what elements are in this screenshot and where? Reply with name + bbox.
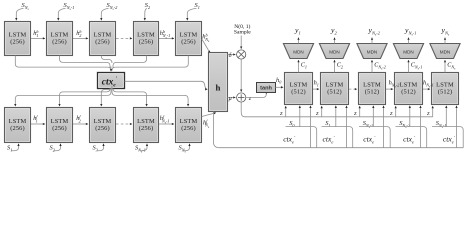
svg-text:z: z [315,110,319,117]
LSTM(256) forward encoder cell f2 [47,108,73,143]
wire: sample arrow down into multiply node [240,35,242,48]
wire: y output arrow from MDN m2 [334,38,336,44]
svg-text:Sample: Sample [234,30,251,36]
wire: ctx to forward cell f1 top [15,89,111,107]
svg-text:hb2: hb2 [76,29,81,38]
wire: S input hook into bottom of cell f4 [139,144,147,151]
LSTM(256) backward encoder cell b2 [47,22,73,56]
LSTM(256) forward encoder cell f4 [134,108,159,143]
wire: z input into decoder cell d1 [285,106,287,117]
wire: S underline from bottom bus into decoder cell d4 [396,127,427,148]
wire: z input into decoder cell d2 [321,106,323,117]
svg-text:LSTM: LSTM [290,82,308,89]
svg-text:LSTM: LSTM [94,118,112,125]
svg-text:(512): (512) [327,89,342,96]
wire: S input hook into top of cell b4 [145,8,147,20]
wire: z input into decoder cell d3 [359,106,361,117]
svg-text:LSTM: LSTM [180,32,198,39]
svg-text:LSTM: LSTM [137,32,155,39]
svg-text:(256): (256) [139,39,154,46]
wire: dashed arrow between forward cells f3 and f4 [116,123,132,125]
svg-text:MDN: MDN [367,50,377,55]
wire: h to sigma [228,54,236,56]
wire: z into tanh [246,94,266,98]
wire: tanh output h0 into first decoder cell [276,86,284,88]
LSTM(256) backward encoder cell b4 [134,22,159,56]
LSTM(256) backward encoder cell b3 [90,22,116,56]
svg-text:δ: δ [229,52,232,59]
svg-text:z: z [389,110,393,117]
svg-text:LSTM: LSTM [51,32,69,39]
wire: S riser arrow into decoder cell d2 [335,106,337,127]
svg-text:(256): (256) [52,125,67,132]
wire: z input into decoder cell d5 [432,106,434,117]
wire: C output from decoder cell d1 into MDN [298,60,300,72]
LSTM(256) forward encoder cell f5 [176,108,202,143]
wire: C output from decoder cell d3 into MDN [371,60,373,72]
wire: arrow h between encoder cells b1 and b2 [31,37,45,39]
wire: backward cell b2 state to ctx bus [60,56,111,69]
wire: arrow h between encoder cells b2 and b3 [73,37,88,39]
wire: arrow h between decoder cells d1 and d2 [313,88,319,90]
wire: arrow h between encoder cells b4 and b5 [159,37,174,39]
svg-text:LSTM: LSTM [51,118,69,125]
LSTM(256) backward encoder cell b1 [5,22,31,56]
wire: S input hook into top of cell b5 [187,8,196,20]
wire: z input into decoder cell d4 [395,106,397,117]
svg-text:MDN: MDN [293,50,303,55]
wire: arrow h between forward cells f2 and f3 [73,123,88,125]
wire: ctx input riser into decoder cell d5 [456,106,458,148]
svg-text:tanh: tanh [260,86,272,92]
wire: h to mu [228,97,236,99]
svg-text:(512): (512) [438,89,453,96]
wire: S input hook into top of cell b3 [101,8,108,20]
svg-text:LSTM: LSTM [180,118,198,125]
wire: S input hook into top of cell b2 [58,8,65,20]
wire: S underline from bottom bus into decoder cell d3 [359,127,390,148]
svg-text:(256): (256) [95,125,110,132]
wire: y output arrow from MDN m3 [371,38,373,44]
multiply node (sigma * sample) [237,50,246,59]
svg-text:LSTM: LSTM [9,32,27,39]
wire: ctx input riser into decoder cell d1 [310,106,312,148]
wire: context bus from below h to decoder bottom [213,112,463,148]
wire: y output arrow from MDN m4 [408,38,410,44]
svg-text:(512): (512) [291,89,306,96]
svg-text:(512): (512) [365,89,380,96]
wire: y output arrow from MDN m5 [444,38,446,44]
wire: backward cell b3 state into ctx [101,56,112,64]
svg-text:hb1: hb1 [33,29,38,38]
svg-text:(256): (256) [95,39,110,46]
svg-text:μ: μ [229,95,232,102]
wire: arrow h between forward cells f4 and f5 [159,123,174,125]
wire: dashed arrow between encoder cells b3 and b4 [116,37,132,39]
svg-text:LSTM: LSTM [400,82,418,89]
svg-text:LSTM: LSTM [9,118,27,125]
wire: S riser arrow into decoder cell d5 [445,106,447,127]
LSTM(512) decoder cell d4 [395,73,423,105]
svg-text:(256): (256) [10,39,25,46]
svg-text:h: h [216,83,221,93]
wire: arrow h between decoder cells d4 and d5 [423,88,430,90]
LSTM(512) decoder cell d3 [359,73,386,105]
MDN mixture density network head m3 [357,44,387,59]
MDN mixture density network head m1 [283,44,313,59]
svg-text:LSTM: LSTM [436,82,454,89]
plus node (mu + sigma*sample) [237,93,246,102]
svg-text:(256): (256) [139,125,154,132]
svg-text:(256): (256) [52,39,67,46]
wire: ctx to forward cell f2 top [60,88,111,106]
svg-text:LSTM: LSTM [326,82,344,89]
LSTM(512) decoder cell d1 [285,73,313,105]
wire: z bus from plus node along decoder bottoms [241,102,433,117]
MDN mixture density network head m2 [319,44,349,59]
LSTM(512) decoder cell d5 [432,73,459,105]
svg-text:MDN: MDN [403,50,413,55]
wire: ctx to forward cell f3 top [101,86,112,106]
h latent box [209,53,228,112]
LSTM(256) forward encoder cell f3 [90,108,116,143]
wire: arrow h between decoder cells d3 and d4 [386,88,393,90]
ctx_e context box [98,73,125,89]
wire: S input hook into bottom of cell f2 [54,144,61,151]
wire: S underline from bottom bus into decoder cell d1 [286,127,317,148]
svg-text:z: z [426,110,430,117]
wire: S underline from bottom bus into decoder cell d5 [432,127,463,148]
svg-text:LSTM: LSTM [94,32,112,39]
wire: dashed arrow between decoder cells d2 and d3 [349,88,357,90]
wire: ctx output into h left side [125,81,208,89]
wire: backward cell b1 state to ctx bus [15,56,111,71]
wire: S riser arrow into decoder cell d1 [299,106,301,127]
svg-text:(256): (256) [181,39,196,46]
LSTM(256) forward encoder cell f1 [5,108,31,143]
wire: arrow h between forward cells f1 and f2 [31,123,45,125]
svg-text:(512): (512) [401,89,416,96]
wire: S input hook into top of cell b1 [16,8,23,20]
svg-text:LSTM: LSTM [363,82,381,89]
svg-text:LSTM: LSTM [137,118,155,125]
LSTM(512) decoder cell d2 [321,73,349,105]
wire: ctx to forward cell f5 top [112,89,188,107]
wire: C output from decoder cell d4 into MDN [408,60,410,72]
svg-text:(256): (256) [181,125,196,132]
wire: merged arrow into ctx top [110,67,112,72]
wire: S riser arrow into decoder cell d4 [409,106,411,127]
wire: multiply node down to plus node [240,59,242,92]
wire: y output arrow from MDN m1 [298,38,300,44]
LSTM(256) backward encoder cell b5 [176,22,202,56]
wire: ctx input riser into decoder cell d3 [383,106,385,148]
wire: diagonal arrow from last forward cell up into h bottom [202,113,216,117]
svg-text:MDN: MDN [329,50,339,55]
wire: C output from decoder cell d2 into MDN [334,60,336,72]
wire: ctx input riser into decoder cell d2 [346,106,348,148]
wire: backward cell b4 state to ctx bus [113,56,147,69]
wire: ctx input riser into decoder cell d4 [420,106,422,148]
svg-text:z: z [248,95,252,102]
wire: diagonal arrow from last backward cell to h [202,39,210,53]
wire: S riser arrow into decoder cell d3 [372,106,374,127]
svg-text:(256): (256) [10,125,25,132]
wire: S input hook into bottom of cell f5 [183,144,190,151]
svg-text:MDN: MDN [440,50,450,55]
wire: ctx to forward cell f4 top [113,88,147,106]
svg-text:z: z [353,110,357,117]
MDN mixture density network head m5 [430,44,460,59]
wire: S input hook into bottom of cell f3 [97,144,104,151]
svg-text:ctxe′: ctxe′ [102,76,118,88]
wire: S input hook into bottom of cell f1 [11,144,18,151]
wire: backward cell b5 state to ctx bus [112,56,188,71]
wire: S underline from bottom bus into decoder cell d2 [322,127,353,148]
MDN mixture density network head m4 [393,44,423,59]
svg-text:z: z [279,110,283,117]
wire: C output from decoder cell d5 into MDN [444,60,446,72]
tanh box [257,83,276,93]
